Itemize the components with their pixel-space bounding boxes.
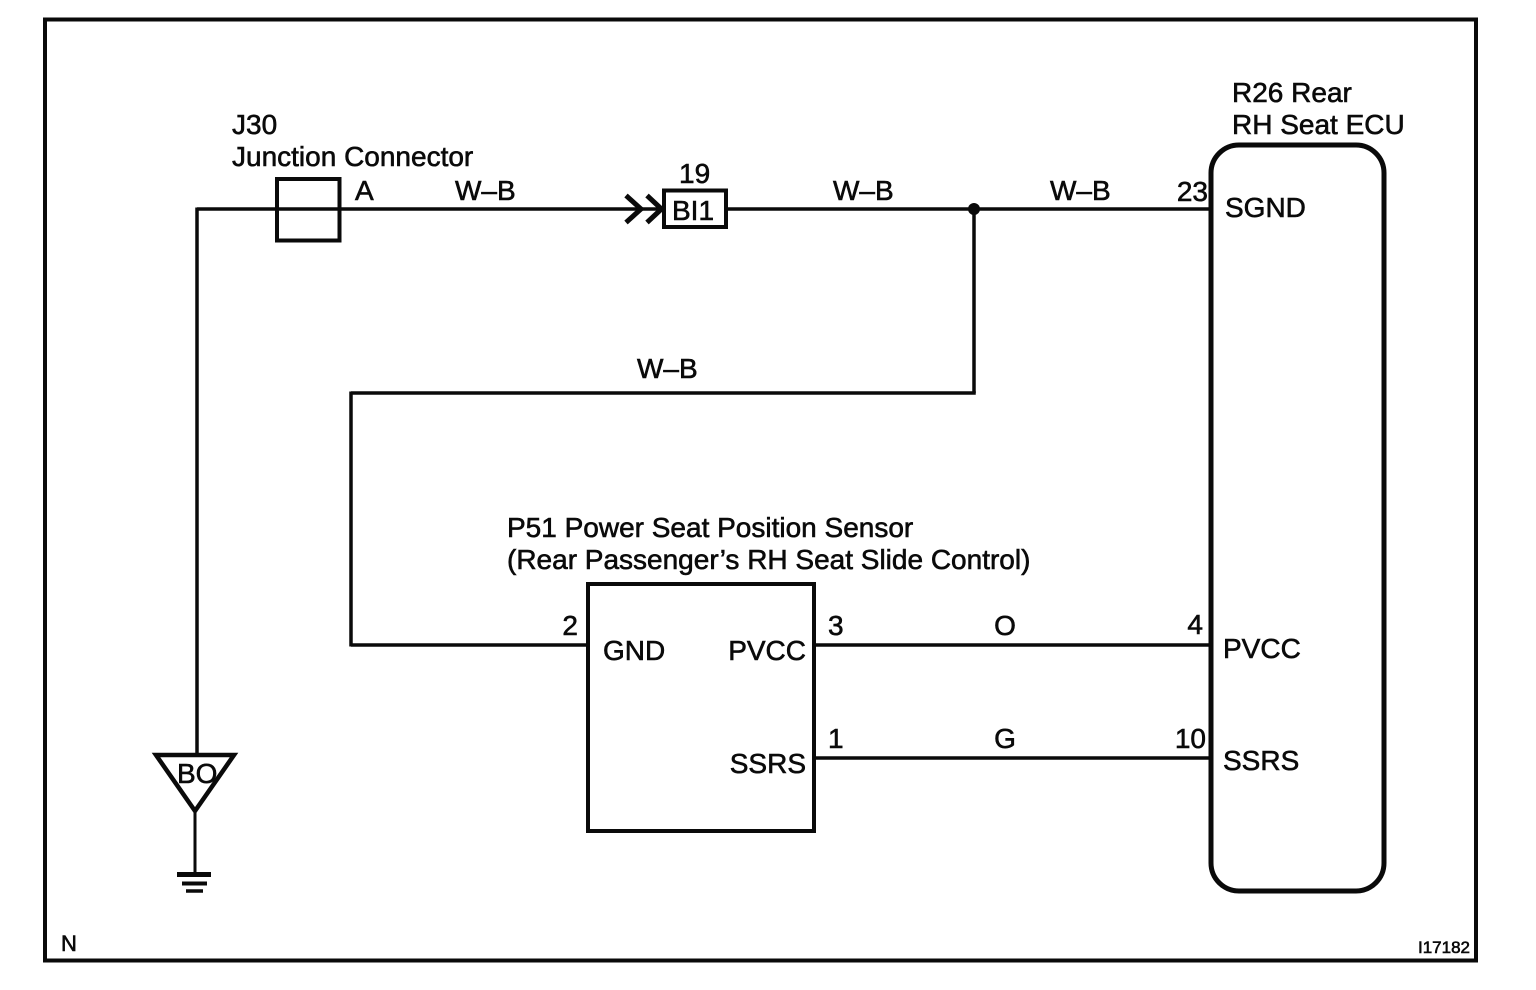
svg-text:(Rear Passenger’s RH Seat Slid: (Rear Passenger’s RH Seat Slide Control) bbox=[507, 544, 1030, 575]
svg-text:BI1: BI1 bbox=[672, 195, 714, 226]
svg-text:P51 Power Seat Position Sensor: P51 Power Seat Position Sensor bbox=[507, 512, 913, 543]
svg-text:W–B: W–B bbox=[455, 175, 516, 206]
junction connector J30 box bbox=[277, 179, 340, 241]
svg-text:SGND: SGND bbox=[1225, 192, 1306, 223]
svg-text:PVCC: PVCC bbox=[1223, 633, 1301, 664]
ground triangle BO bbox=[156, 755, 234, 811]
svg-text:3: 3 bbox=[828, 610, 844, 641]
svg-text:W–B: W–B bbox=[833, 175, 894, 206]
svg-text:W–B: W–B bbox=[637, 353, 698, 384]
svg-text:SSRS: SSRS bbox=[730, 748, 806, 779]
svg-text:J30: J30 bbox=[232, 109, 277, 140]
svg-text:RH Seat ECU: RH Seat ECU bbox=[1232, 109, 1405, 140]
ECU R26 rounded box bbox=[1211, 145, 1384, 891]
svg-text:2: 2 bbox=[562, 610, 578, 641]
svg-text:4: 4 bbox=[1187, 609, 1203, 640]
svg-text:PVCC: PVCC bbox=[728, 635, 806, 666]
svg-text:GND: GND bbox=[603, 635, 665, 666]
svg-text:23: 23 bbox=[1177, 176, 1208, 207]
sensor P51 box bbox=[588, 584, 814, 831]
svg-text:G: G bbox=[994, 723, 1016, 754]
svg-text:1: 1 bbox=[828, 723, 844, 754]
wire from junction dot down bbox=[972, 209, 976, 393]
svg-text:I17182: I17182 bbox=[1418, 938, 1470, 957]
junction dot bbox=[968, 203, 980, 215]
connector BI1 box bbox=[664, 191, 726, 228]
wire PVCC O bbox=[816, 643, 1212, 647]
svg-text:Junction Connector: Junction Connector bbox=[232, 141, 473, 172]
svg-text:SSRS: SSRS bbox=[1223, 745, 1299, 776]
ground symbol bbox=[177, 872, 211, 877]
wire main horizontal W-B bbox=[197, 207, 1212, 211]
svg-text:10: 10 bbox=[1175, 723, 1206, 754]
wire horizontal run W-B bbox=[351, 391, 976, 395]
svg-text:W–B: W–B bbox=[1050, 175, 1111, 206]
svg-text:R26 Rear: R26 Rear bbox=[1232, 77, 1352, 108]
svg-text:O: O bbox=[994, 610, 1016, 641]
arrow chevrons into BI1 bbox=[626, 196, 662, 223]
wire into P51 pin 2 bbox=[351, 643, 586, 647]
wire triangle to ground bbox=[194, 811, 197, 872]
svg-text:A: A bbox=[355, 175, 374, 206]
wire SSRS G bbox=[816, 756, 1212, 760]
svg-text:19: 19 bbox=[679, 158, 710, 189]
svg-text:N: N bbox=[61, 931, 77, 956]
wire vertical down to P51 bbox=[349, 392, 353, 647]
wire left vertical to ground bbox=[195, 208, 199, 755]
svg-text:BO: BO bbox=[177, 758, 217, 789]
